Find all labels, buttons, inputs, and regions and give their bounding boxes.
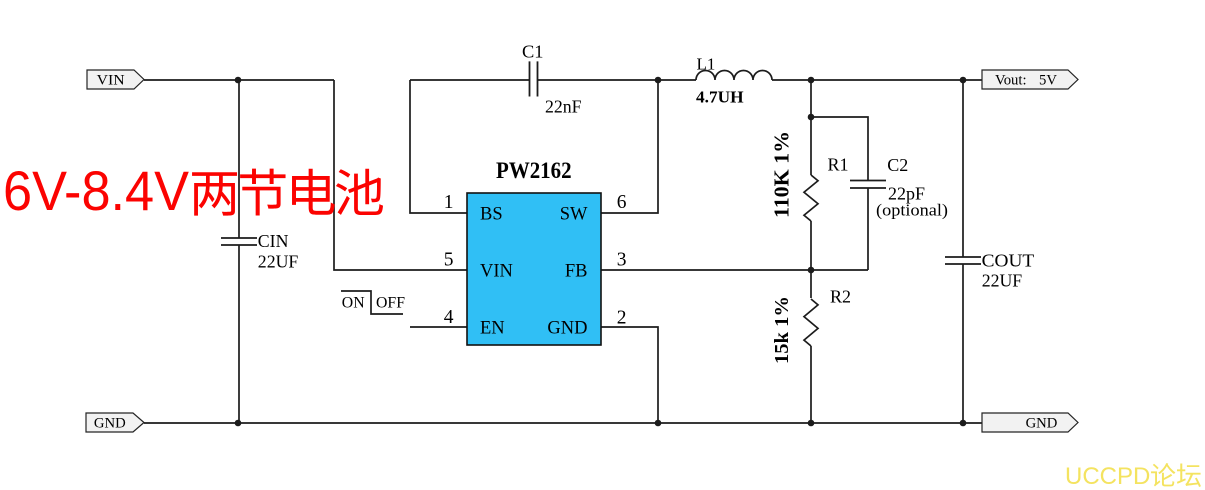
svg-text:3: 3: [617, 250, 627, 271]
svg-text:6: 6: [617, 192, 627, 213]
svg-text:22nF: 22nF: [545, 96, 582, 116]
svg-text:OFF: OFF: [376, 294, 405, 311]
svg-text:CIN: CIN: [258, 231, 289, 251]
svg-text:22UF: 22UF: [258, 252, 299, 272]
svg-text:C1: C1: [522, 41, 544, 61]
svg-text:ON: ON: [342, 294, 365, 311]
svg-text:1: 1: [444, 192, 454, 213]
svg-text:EN: EN: [480, 319, 505, 339]
svg-text:VIN: VIN: [480, 262, 513, 282]
svg-text:Vout:: Vout:: [995, 73, 1027, 89]
svg-text:5V: 5V: [1039, 73, 1057, 89]
svg-text:GND: GND: [94, 416, 126, 432]
svg-text:(optional): (optional): [876, 201, 948, 220]
svg-text:R2: R2: [830, 287, 851, 307]
svg-text:UCCPD: UCCPD: [1065, 463, 1150, 490]
svg-text:6V-8.4V: 6V-8.4V: [3, 159, 190, 222]
svg-text:BS: BS: [480, 205, 503, 225]
svg-text:L1: L1: [697, 54, 716, 73]
svg-text:15k 1%: 15k 1%: [771, 296, 793, 364]
svg-text:5: 5: [444, 250, 454, 271]
svg-text:C2: C2: [887, 155, 908, 175]
svg-text:4.7UH: 4.7UH: [696, 87, 744, 106]
svg-text:22UF: 22UF: [982, 270, 1023, 290]
svg-text:VIN: VIN: [97, 73, 125, 89]
svg-text:FB: FB: [565, 262, 588, 282]
svg-text:2: 2: [617, 307, 627, 328]
svg-text:COUT: COUT: [982, 251, 1035, 271]
svg-text:GND: GND: [547, 319, 587, 339]
svg-text:4: 4: [444, 307, 454, 328]
svg-text:R1: R1: [828, 155, 849, 175]
svg-text:110K 1%: 110K 1%: [770, 131, 794, 218]
svg-text:PW2162: PW2162: [496, 158, 572, 183]
svg-text:SW: SW: [560, 205, 588, 225]
svg-text:GND: GND: [1026, 416, 1058, 432]
